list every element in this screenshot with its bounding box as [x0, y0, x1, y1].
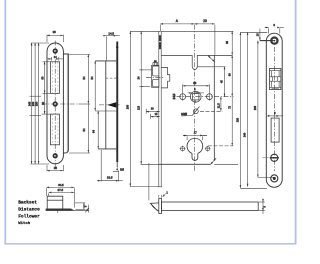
svg-text:8: 8 — [84, 205, 87, 207]
bottom screw hole — [271, 175, 278, 182]
svg-text:Follower: Follower — [18, 213, 40, 219]
latch centerline — [99, 104, 120, 106]
svg-text:14.5: 14.5 — [108, 32, 114, 36]
svg-text:72: 72 — [228, 106, 231, 109]
dim 8 follower square — [188, 88, 204, 103]
ext forend top to right — [161, 30, 233, 32]
plate vertical centerline — [54, 41, 56, 168]
left extension lines — [30, 43, 51, 164]
svg-text:54: 54 — [90, 76, 94, 79]
svg-text:54: 54 — [82, 76, 86, 79]
dim 9 middle — [267, 111, 283, 116]
follower hub — [190, 91, 201, 102]
svg-text:2: 2 — [166, 192, 168, 195]
faceplate thickness dim marks — [159, 192, 169, 198]
dim 10 — [151, 113, 160, 119]
svg-text:20: 20 — [203, 19, 207, 23]
latch cutout window — [50, 62, 59, 94]
latch head wedge — [150, 203, 158, 211]
dim 14 under top hole — [48, 55, 63, 61]
dim 21.5 — [217, 97, 221, 112]
case bottom edge — [159, 163, 211, 165]
svg-text:113: 113 — [137, 105, 140, 110]
svg-text:8: 8 — [194, 88, 196, 91]
ext line top right — [215, 66, 226, 68]
svg-text:200: 200 — [254, 105, 257, 110]
svg-text:30: 30 — [41, 101, 45, 104]
latch guide bracket behind plate — [161, 67, 170, 88]
latch cutout hidden lines — [53, 62, 58, 93]
right dim line 54 bottom — [82, 104, 88, 153]
svg-text:45: 45 — [221, 80, 224, 83]
faceplate bar top arrow tick — [116, 44, 119, 48]
latch window bottom line — [95, 110, 116, 112]
legend text — [18, 199, 40, 226]
ext line forend top — [130, 30, 160, 32]
lip height dim 8 — [75, 203, 88, 210]
svg-text:245: 245 — [27, 101, 31, 106]
forend dark top section — [159, 35, 161, 49]
svg-text:24: 24 — [137, 76, 140, 79]
M5 ext line — [200, 110, 222, 112]
tail base line — [113, 171, 119, 173]
svg-text:3.5: 3.5 — [120, 169, 124, 172]
svg-text:8: 8 — [264, 205, 267, 207]
frame bottom border — [4, 243, 296, 245]
svg-text:Witch: Witch — [18, 221, 31, 226]
dust box body — [47, 196, 63, 210]
svg-text:20: 20 — [151, 107, 154, 110]
forend centerline — [273, 47, 275, 171]
svg-text:17: 17 — [194, 131, 197, 135]
dim 20 — [195, 19, 215, 55]
dim 60 — [228, 55, 232, 96]
latch guide tab top — [153, 63, 158, 66]
left dim line 50 — [40, 62, 44, 94]
svg-text:240: 240 — [244, 132, 247, 137]
ext case bottom right — [214, 163, 238, 165]
deadbolt cutout window — [50, 114, 59, 145]
bar bottom thin tail — [116, 162, 118, 167]
cylinder side hole left — [180, 146, 186, 152]
dim 45 — [221, 67, 225, 97]
svg-text:40.5: 40.5 — [58, 183, 64, 187]
svg-text:230: 230 — [34, 101, 38, 106]
dim 25 bottom — [47, 165, 63, 171]
faceplate edge bar — [116, 42, 118, 163]
svg-text:38: 38 — [193, 81, 197, 85]
dim 23.5 bottom — [97, 150, 123, 182]
latch bolt side (black) — [107, 102, 116, 107]
follower vertical centerline — [194, 25, 196, 172]
latch head inner line — [151, 204, 157, 210]
dim 72 — [228, 97, 232, 146]
dim 14.5 top — [103, 32, 120, 61]
top corner chamfer leader — [208, 56, 215, 63]
dim 38 — [183, 81, 210, 93]
deadbolt window — [271, 118, 279, 142]
forend bottom tick — [158, 186, 162, 188]
svg-text:230: 230 — [127, 104, 130, 109]
strike main plate outline — [47, 43, 63, 164]
svg-text:10: 10 — [155, 113, 158, 116]
dim 200 — [254, 41, 258, 178]
latch bolt in window — [270, 71, 281, 89]
follower horizontal centerline — [177, 96, 234, 98]
right dim line 54 top — [82, 54, 88, 104]
latch centerline front — [146, 77, 164, 79]
svg-text:50: 50 — [40, 76, 44, 79]
euro cylinder profile — [187, 138, 203, 160]
ext line forend bottom — [130, 186, 159, 188]
dim 40.5 — [47, 183, 75, 208]
ext top plate — [241, 32, 274, 188]
dim 20 latch width — [146, 107, 160, 113]
tail arrowhead — [116, 167, 118, 170]
left dim line 230 — [34, 43, 38, 164]
inner top line — [197, 66, 214, 68]
strike lip wedge tip — [71, 209, 74, 211]
frame right border — [295, 0, 297, 244]
dim 9 top — [265, 23, 284, 34]
right fixing hole — [207, 93, 213, 101]
cylinder side hole right — [205, 146, 211, 152]
svg-text:9: 9 — [273, 23, 275, 27]
svg-text:Distance: Distance — [18, 206, 40, 212]
case top edge — [161, 54, 233, 56]
middle screw hole slotted — [270, 154, 279, 161]
left dim line 240 — [31, 43, 35, 164]
latch bar — [162, 202, 259, 211]
svg-text:Backset: Backset — [18, 199, 37, 205]
dim 17 cylinder — [183, 131, 207, 141]
bottom screw hole — [53, 154, 57, 158]
deadbolt cutout hidden lines — [53, 114, 58, 144]
base line extension — [46, 205, 89, 213]
svg-text:25: 25 — [53, 30, 57, 34]
top slot — [192, 55, 197, 70]
projection line to section — [148, 163, 150, 200]
M5 hole — [181, 107, 199, 117]
dim 37.5 — [49, 188, 75, 196]
dim A backset — [160, 19, 194, 32]
left fixing hole — [180, 93, 186, 101]
left dim line 245 — [27, 43, 31, 164]
lock case side outline — [95, 61, 116, 149]
svg-text:240: 240 — [31, 101, 35, 106]
right extension lines of strike — [69, 54, 90, 153]
svg-text:2-M5: 2-M5 — [181, 113, 187, 116]
side dim 54 — [90, 61, 95, 111]
latch bolt front view body — [152, 65, 159, 87]
dim 35 — [226, 31, 232, 55]
dim 230 forend overall — [127, 31, 131, 186]
svg-text:A: A — [176, 19, 179, 23]
bottom corner chamfer leader — [211, 158, 217, 164]
dim line case stack — [137, 31, 152, 164]
faceplate cross-section — [159, 198, 162, 213]
svg-text:37.5: 37.5 — [57, 188, 63, 192]
dim 13 — [256, 29, 273, 41]
middle hole centerline — [42, 103, 79, 105]
svg-text:54: 54 — [82, 128, 86, 131]
svg-text:14: 14 — [54, 55, 57, 59]
dim 240 — [244, 32, 248, 187]
svg-text:13: 13 — [256, 33, 259, 36]
ext line cylinder center — [208, 145, 233, 147]
svg-text:60: 60 — [228, 73, 231, 76]
bar end dim 8 — [259, 199, 267, 214]
side dim 64 — [92, 111, 99, 149]
middle screw hole — [53, 102, 57, 106]
svg-text:9: 9 — [274, 111, 276, 115]
svg-text:25: 25 — [54, 166, 58, 170]
frame left border — [4, 0, 6, 244]
top screw hole ring — [271, 38, 277, 44]
strike lip plate (stepped plate behind) — [63, 54, 68, 153]
base centerline tick — [57, 209, 59, 213]
left dim line 30 — [41, 93, 45, 114]
svg-text:23.5: 23.5 — [107, 176, 113, 180]
svg-text:35: 35 — [226, 41, 229, 44]
dim 230 — [237, 32, 241, 188]
dim 25 top width — [47, 30, 63, 42]
latch window — [270, 69, 281, 90]
svg-text:64: 64 — [92, 130, 96, 133]
svg-text:21.5: 21.5 — [217, 103, 220, 108]
strike base thick plate — [46, 208, 71, 210]
forend plate outline — [266, 33, 282, 187]
svg-text:2-5.5: 2-5.5 — [173, 93, 176, 99]
case right edge — [213, 55, 215, 160]
svg-text:230: 230 — [237, 117, 240, 122]
latch window top hidden line — [106, 77, 118, 79]
forend edge-on double line — [159, 31, 161, 186]
top screw hole — [53, 49, 57, 53]
